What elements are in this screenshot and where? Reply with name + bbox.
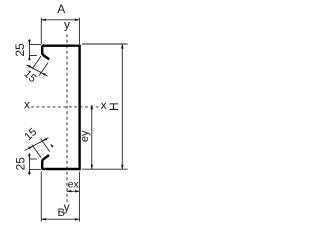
svg-text:x: x <box>101 98 107 112</box>
dimension ey (x-axis to bottom) <box>91 105 93 169</box>
svg-text:H: H <box>107 102 121 111</box>
dimension ex (y-axis to web) <box>67 190 80 192</box>
dimension H (right height) <box>82 44 128 169</box>
x axis (dashed horizontal) <box>31 106 100 108</box>
svg-text:A: A <box>57 2 65 16</box>
y axis (dashed vertical) <box>66 34 68 204</box>
dimension A (top width) <box>41 18 79 45</box>
dimension 15 bottom (return lip) <box>25 138 50 158</box>
dimension B (bottom width) <box>41 172 79 222</box>
svg-text:ex: ex <box>68 179 80 191</box>
svg-text:25: 25 <box>13 43 27 57</box>
svg-text:ey: ey <box>79 130 91 142</box>
svg-text:B: B <box>58 207 65 219</box>
svg-text:25: 25 <box>13 157 27 171</box>
svg-text:x: x <box>24 98 30 112</box>
profile outline (lipped C-channel, web right) <box>42 46 79 169</box>
dimension 15 top (return lip) <box>27 56 49 76</box>
dimension 25 top (lip depth) <box>29 39 41 60</box>
dimension 25 bottom (lip depth) <box>29 153 41 175</box>
